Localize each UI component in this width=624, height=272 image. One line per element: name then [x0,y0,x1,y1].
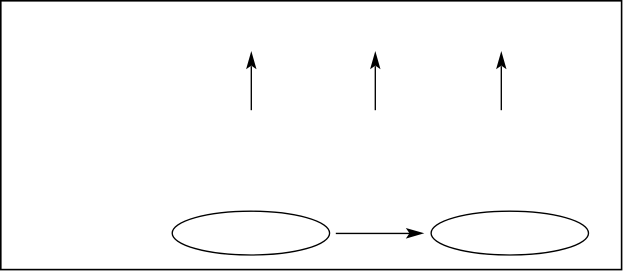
up arrow 2 (middle field arrow) [370,51,380,110]
left ellipse node [172,211,329,255]
arrow edge from left ellipse to right ellipse [336,228,425,239]
up arrow 3 (right field arrow) [496,51,506,110]
up arrow 1 (left field arrow) [246,51,256,110]
right ellipse node [431,211,588,255]
